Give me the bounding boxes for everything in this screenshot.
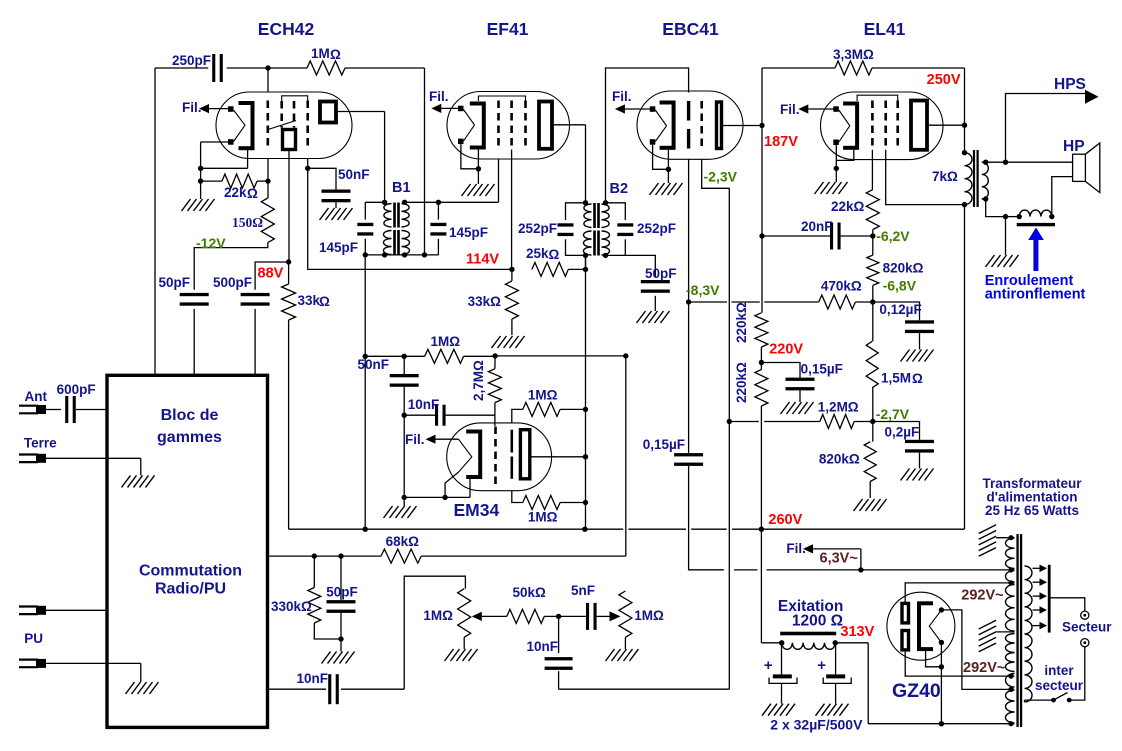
wire grid1 drop [267,68,269,93]
svg-text:500pF: 500pF [213,275,252,290]
terminal PU lower [19,659,141,668]
node 22k left [198,178,203,183]
tube EL41 envelope [821,92,944,160]
node 25k B2 [583,267,588,272]
capacitor 10nF pickup [268,671,405,704]
terminal Ant [19,389,47,414]
node 1,2M left [727,419,732,424]
capacitor 0,12uF [873,302,934,333]
node 260V chain [759,527,764,532]
node 20nF left [759,233,764,238]
label EM34 [454,500,500,520]
wire EBC41 cathode ground [650,145,683,195]
svg-text:EF41: EF41 [487,19,529,39]
svg-text:inter: inter [1044,663,1074,678]
svg-text:25 Hz 65 Watts: 25 Hz 65 Watts [985,503,1079,518]
wire B1 top left [365,201,384,203]
svg-text:145pF: 145pF [319,240,358,255]
EL41 cathode [843,102,857,150]
label 250V [927,72,961,88]
ground PU [126,663,159,694]
tube EM34 envelope [447,423,552,491]
Secteur terminal 2 [1081,639,1089,647]
wire GZ40 plate1 [905,583,1010,604]
resistor 220k lower [755,363,768,530]
resistor 330k [271,556,341,639]
svg-text:EBC41: EBC41 [662,19,719,39]
svg-text:10nF: 10nF [527,639,559,654]
terminal Terre [19,436,57,463]
EF41 grid strap [478,96,525,101]
label 114V [466,252,499,268]
wire EL41 grid1 drop [871,150,873,190]
wire EL41 top [762,67,835,69]
capacitor 252pF primary [518,203,586,256]
tube EBC41 envelope [637,91,743,159]
svg-text:-2,7V: -2,7V [876,406,910,422]
wire EF41 cathode ground [461,144,495,196]
speaker HP [1073,143,1100,193]
HPS arrow [1085,90,1099,104]
svg-text:1MΩ: 1MΩ [528,387,558,402]
svg-text:10nF: 10nF [408,397,440,412]
wire GZ40 cathode out [926,643,945,727]
wire EL41 grid2 to OT [886,150,965,205]
ground 0,12uF [901,333,934,361]
svg-text:88V: 88V [258,266,284,282]
wire 50nF tap [308,168,336,189]
chassis shield top [996,537,1014,539]
label 260V [768,512,802,528]
svg-text:Fil.: Fil. [786,541,806,556]
EM34 cathode [466,430,480,480]
wire HPS [986,94,1085,165]
capacitor 10nF af [527,616,573,689]
EL41 anode [911,101,927,150]
capacitor 50pF avc [326,556,358,639]
svg-text:Fil.: Fil. [182,100,202,115]
svg-text:25k: 25k [526,246,549,261]
capacitor 252pF secondary [606,203,677,256]
svg-text:Ω: Ω [549,247,560,262]
wire B1 top right to EF41 grid [405,159,499,202]
wire switch to primary [1025,700,1054,702]
label 292V upper [961,588,1003,604]
node 260V left [363,527,368,532]
node 260V EM34 [582,527,587,532]
capacitor 500pF [213,275,270,306]
transformer B2 core [593,203,600,256]
svg-text:50pF: 50pF [158,275,190,290]
label GZ40 [892,680,941,702]
terminal PU upper [19,606,107,615]
svg-text:50pF: 50pF [645,266,677,281]
wire grid2 drop [308,159,512,270]
svg-text:470kΩ: 470kΩ [821,279,862,294]
ground EM34 [384,497,417,518]
resistor 22k ECH42 [201,174,268,201]
EF41 filament V [464,110,475,142]
svg-text:5nF: 5nF [571,583,595,598]
wire B2 bottom to 50pF [606,255,656,277]
svg-text:gammes: gammes [157,429,222,446]
node cathode join [198,166,203,171]
ground 50pF det [637,296,670,323]
svg-text:250pF: 250pF [172,53,211,68]
wire cap to 6,3V corner [689,466,724,570]
EL41 filament V [839,110,850,142]
selector bar [1048,565,1051,633]
node -8,3V [686,299,691,304]
svg-text:GZ40: GZ40 [892,680,941,702]
wire EF41 anode out [552,125,586,203]
node -6,2V [870,233,875,238]
tube EF41 envelope [447,92,570,160]
wire 313V [835,643,868,724]
wire 250pF to node [227,67,268,69]
ground pot left [445,637,478,661]
svg-text:Commutation: Commutation [139,563,242,580]
wire Terre ground [46,458,155,487]
wire 68k to em34 bus [421,356,626,556]
EF41 grid1 dashes [497,101,500,150]
ECH42 cathode [239,101,253,150]
EL41 Fil label [780,102,800,117]
EBC41 diode plates [687,101,690,149]
node 2,7M top [492,353,497,358]
pot right wiper arrow [610,611,621,621]
svg-text:114V: 114V [466,252,499,268]
ground 0,2uF [901,453,934,481]
ground antironflement [986,217,1019,267]
resistor 1M em34 top [404,334,463,363]
svg-text:820kΩ: 820kΩ [883,261,924,276]
wire avc 68k line [268,553,382,558]
wire B1 bottom row [365,254,438,256]
label HP [1063,138,1085,155]
svg-text:-6,2V: -6,2V [876,228,910,244]
wire GZ40 plate2 [905,650,1010,676]
svg-text:ECH42: ECH42 [258,19,315,39]
capacitor 50pF det [641,266,677,293]
label 6,3V [820,551,858,567]
svg-text:Secteur: Secteur [1062,620,1112,635]
ECH42 Fil label [182,100,202,115]
svg-text:7kΩ: 7kΩ [932,169,958,184]
svg-text:+: + [817,657,826,674]
EF41 Fil label [429,89,449,104]
EF41 filament squares [458,106,464,144]
node EF41 grid2 bus [509,267,514,272]
wire EM34 left bus [403,415,405,497]
svg-text:+: + [764,657,773,674]
svg-text:Fil.: Fil. [780,102,800,117]
svg-text:150Ω: 150Ω [232,215,263,230]
label 2,7M [471,360,486,401]
svg-text:292V~: 292V~ [963,660,1005,676]
EBC41 filament squares [650,106,656,144]
EM34 filament V [459,439,472,472]
wire filament return [201,142,228,181]
svg-text:B1: B1 [392,180,411,196]
svg-text:Terre: Terre [24,436,57,451]
node EM34 anode [583,454,588,459]
resistor 33k EF41 [468,269,519,335]
wire Secteur to switch [1069,647,1085,700]
transformer B1 label [392,180,411,196]
svg-text:50pF: 50pF [326,585,358,600]
ECH42 grid 2 dashes [280,101,283,128]
svg-text:1,2MΩ: 1,2MΩ [818,400,859,415]
svg-text:0,12µF: 0,12µF [879,302,921,317]
transformer B2 label [610,181,629,197]
svg-text:0,2µF: 0,2µF [885,425,920,440]
EBC41 cathode [660,101,674,150]
wire 3,3M to corner [872,68,965,125]
EF41 cathode [470,102,484,150]
wire EM34 right bus [585,255,587,529]
node grid1 top [265,65,270,70]
power transformer primary winding [1025,566,1033,702]
capacitor 145pF primary [319,202,373,255]
label PU [24,631,43,646]
ground avc [322,639,355,664]
resistor 25k [526,246,586,276]
svg-text:B2: B2 [610,181,629,197]
resistor 3,3M [833,47,874,75]
svg-text:22k: 22k [224,185,247,200]
wire pot feed [404,576,465,689]
ECH42 filament squares [228,106,234,144]
node bus 626 [623,353,628,358]
EL41 grid1 dashes [871,101,874,150]
wire to speaker [1006,161,1073,163]
wire 50pF to block [193,309,195,375]
tube ECH42 envelope [216,92,352,159]
resistor 2,7M [488,356,501,426]
svg-text:-2,3V: -2,3V [704,169,738,185]
resistor 220k upper [755,313,768,363]
EBC41 fil arrow [615,104,650,113]
wire 187V bus [761,68,763,313]
svg-text:1,5M: 1,5M [881,371,911,386]
chassis shield hatch top [979,525,996,557]
bus 356 line [365,355,626,357]
fil arrow 6,3V [803,544,861,553]
wire 6,3V line [690,569,1010,571]
resistor 1M em34 lower [512,491,586,525]
resistor 33k screen [282,262,330,320]
wire EBC41 anode out [722,125,763,127]
exitation coil [761,640,838,649]
inter secteur switch [1051,693,1072,703]
chassis shield mid connection [996,631,1014,633]
capacitor 20nF [762,219,873,250]
label 220k lower [734,362,749,403]
ECH42 filament V [234,110,246,142]
capacitor 600pF [46,382,107,423]
EBC41 anode [717,102,722,149]
transformer B2 primary [584,204,592,255]
tube label ECH42 [258,19,315,39]
svg-text:Ω: Ω [330,47,341,62]
label Enroulement antironflement [985,273,1086,303]
wire EBC41 grid path [702,159,730,421]
label Transformateur [982,476,1082,518]
wire EM34 target out [530,456,586,458]
wire 33k to 260V bus [289,320,965,529]
label 220k upper [734,302,749,343]
EBC41 filament V [655,110,666,142]
EL41 grid strap [857,95,898,101]
capacitor 0,2uF [873,422,934,453]
wire EM34 cathode bottom [404,472,470,500]
EL41 grid3 dashes [896,101,899,150]
block Bloc de gammes / Commutation [107,375,268,727]
svg-text:Bloc de: Bloc de [161,407,219,424]
ground 33k EF41 [492,336,525,348]
GZ40 filament V [929,607,944,645]
EM34 Fil label [405,432,425,447]
GZ40 plate 2 [902,631,909,650]
wire GZ40 fil top [941,610,1010,690]
Secteur terminal 1 [1081,611,1089,619]
label -6,8V [883,278,917,294]
EF41 grid2 dashes [510,101,513,150]
label 313V [840,624,874,640]
label Fil 6,3V [786,541,806,556]
label HPS [1054,76,1086,93]
wire left bus vertical [154,68,156,375]
node 1M upper right [583,407,588,412]
EM34 electrode [510,430,513,479]
label -2,7V [876,406,910,422]
label Bloc de gammes [157,407,222,446]
power transformer secondary windings [1005,538,1014,723]
svg-text:2 x 32µF/500V: 2 x 32µF/500V [770,717,863,733]
resistor 68k [381,534,421,563]
pot left wiper [472,612,507,621]
capacitor 5nF [559,583,610,630]
node 88V [286,259,291,264]
svg-text:145pF: 145pF [449,225,488,240]
svg-text:313V: 313V [840,624,874,640]
EL41 grid2 dashes [884,101,887,150]
resistor 1,5M [866,302,923,422]
GZ40 cathode [917,602,933,651]
svg-text:0,15µF: 0,15µF [801,362,843,377]
wire ECH42 triode anode to B1 [336,112,385,203]
wire af return [559,422,730,690]
capacitor 50pF anode bypass [158,275,208,306]
ECH42 internal diagonal [268,121,296,130]
wire 1M to corner [345,68,425,255]
ground 32uF right [816,704,849,716]
node EL41 anode [962,123,967,128]
svg-text:220kΩ: 220kΩ [734,302,749,343]
transformer B1 core [393,203,400,256]
B2 terminal dots [583,200,608,258]
node 1M lower right [583,500,588,505]
node -2,7V [870,419,875,424]
svg-text:0,15µF: 0,15µF [643,437,685,452]
svg-text:2,7MΩ: 2,7MΩ [471,360,486,401]
EL41 fil arrow [798,104,834,113]
wire coil to speaker [1052,177,1073,217]
wire 313V bottom [868,723,1010,725]
node EBC41 anode [759,123,764,128]
svg-text:Ω: Ω [247,186,258,201]
ECH42 grid strap [282,96,308,101]
svg-text:Fil.: Fil. [429,89,449,104]
tube label EL41 [864,19,906,39]
node 145pF sec top [436,200,441,205]
exitation bar [780,632,836,636]
capacitor 0,15uF 220V [761,362,843,391]
wire B1 avc drop [364,255,366,529]
label Secteur [1062,620,1112,635]
ECH42 grid 4 dashes [306,101,309,151]
wire 260V to exitation [760,529,762,643]
svg-text:3,3MΩ: 3,3MΩ [833,47,874,62]
capacitor 250pF [172,53,223,82]
capacitor 50nF em34 [357,356,418,415]
svg-text:1MΩ: 1MΩ [423,608,453,623]
wire diode line to cap [688,302,690,453]
svg-text:50nF: 50nF [357,357,389,372]
EM34 grid dashes [494,427,497,488]
svg-text:220kΩ: 220kΩ [734,362,749,403]
output transformer core [973,150,979,207]
ground pot right [606,637,639,661]
wire B2 sec bottom drop [585,255,587,269]
wire grid1 below tube [267,159,269,199]
EL41 filament squares [833,106,839,145]
wire 88V to 500pF [255,262,289,290]
output transformer primary [962,150,972,207]
EF41 anode [539,102,552,149]
wire top bus left segment [155,67,208,69]
svg-text:187V: 187V [764,134,798,150]
svg-text:secteur: secteur [1035,678,1084,693]
resistor 820k lower [819,422,876,499]
chassis shield hatch mid [979,620,996,652]
svg-text:20nF: 20nF [801,219,833,234]
ground 0,15uF 220V [781,390,814,414]
svg-text:820kΩ: 820kΩ [819,452,860,467]
potentiometer 1M right [619,591,664,637]
wire -12V path [194,243,268,290]
svg-text:6,3V~: 6,3V~ [820,551,858,567]
label 220V [769,342,803,358]
ECH42 grid 1 dashes [266,101,269,151]
wire hexode anode drop [288,150,290,263]
tube label EBC41 [662,19,719,39]
wire cathode bottom [201,150,248,168]
tube label EF41 [487,19,529,39]
label 187V [764,134,798,150]
wire 500pF to block [254,309,256,375]
label 7k [932,169,958,184]
svg-text:33kΩ: 33kΩ [468,294,502,309]
label 292V lower [963,660,1005,676]
ECH42 triode anode [320,102,336,123]
wire EL41 anode out [927,124,965,126]
svg-text:antironflement: antironflement [985,287,1086,303]
wire EBC41 diode drop [688,159,690,302]
svg-text:-6,8V: -6,8V [883,278,917,294]
ground 50nF [320,202,353,220]
